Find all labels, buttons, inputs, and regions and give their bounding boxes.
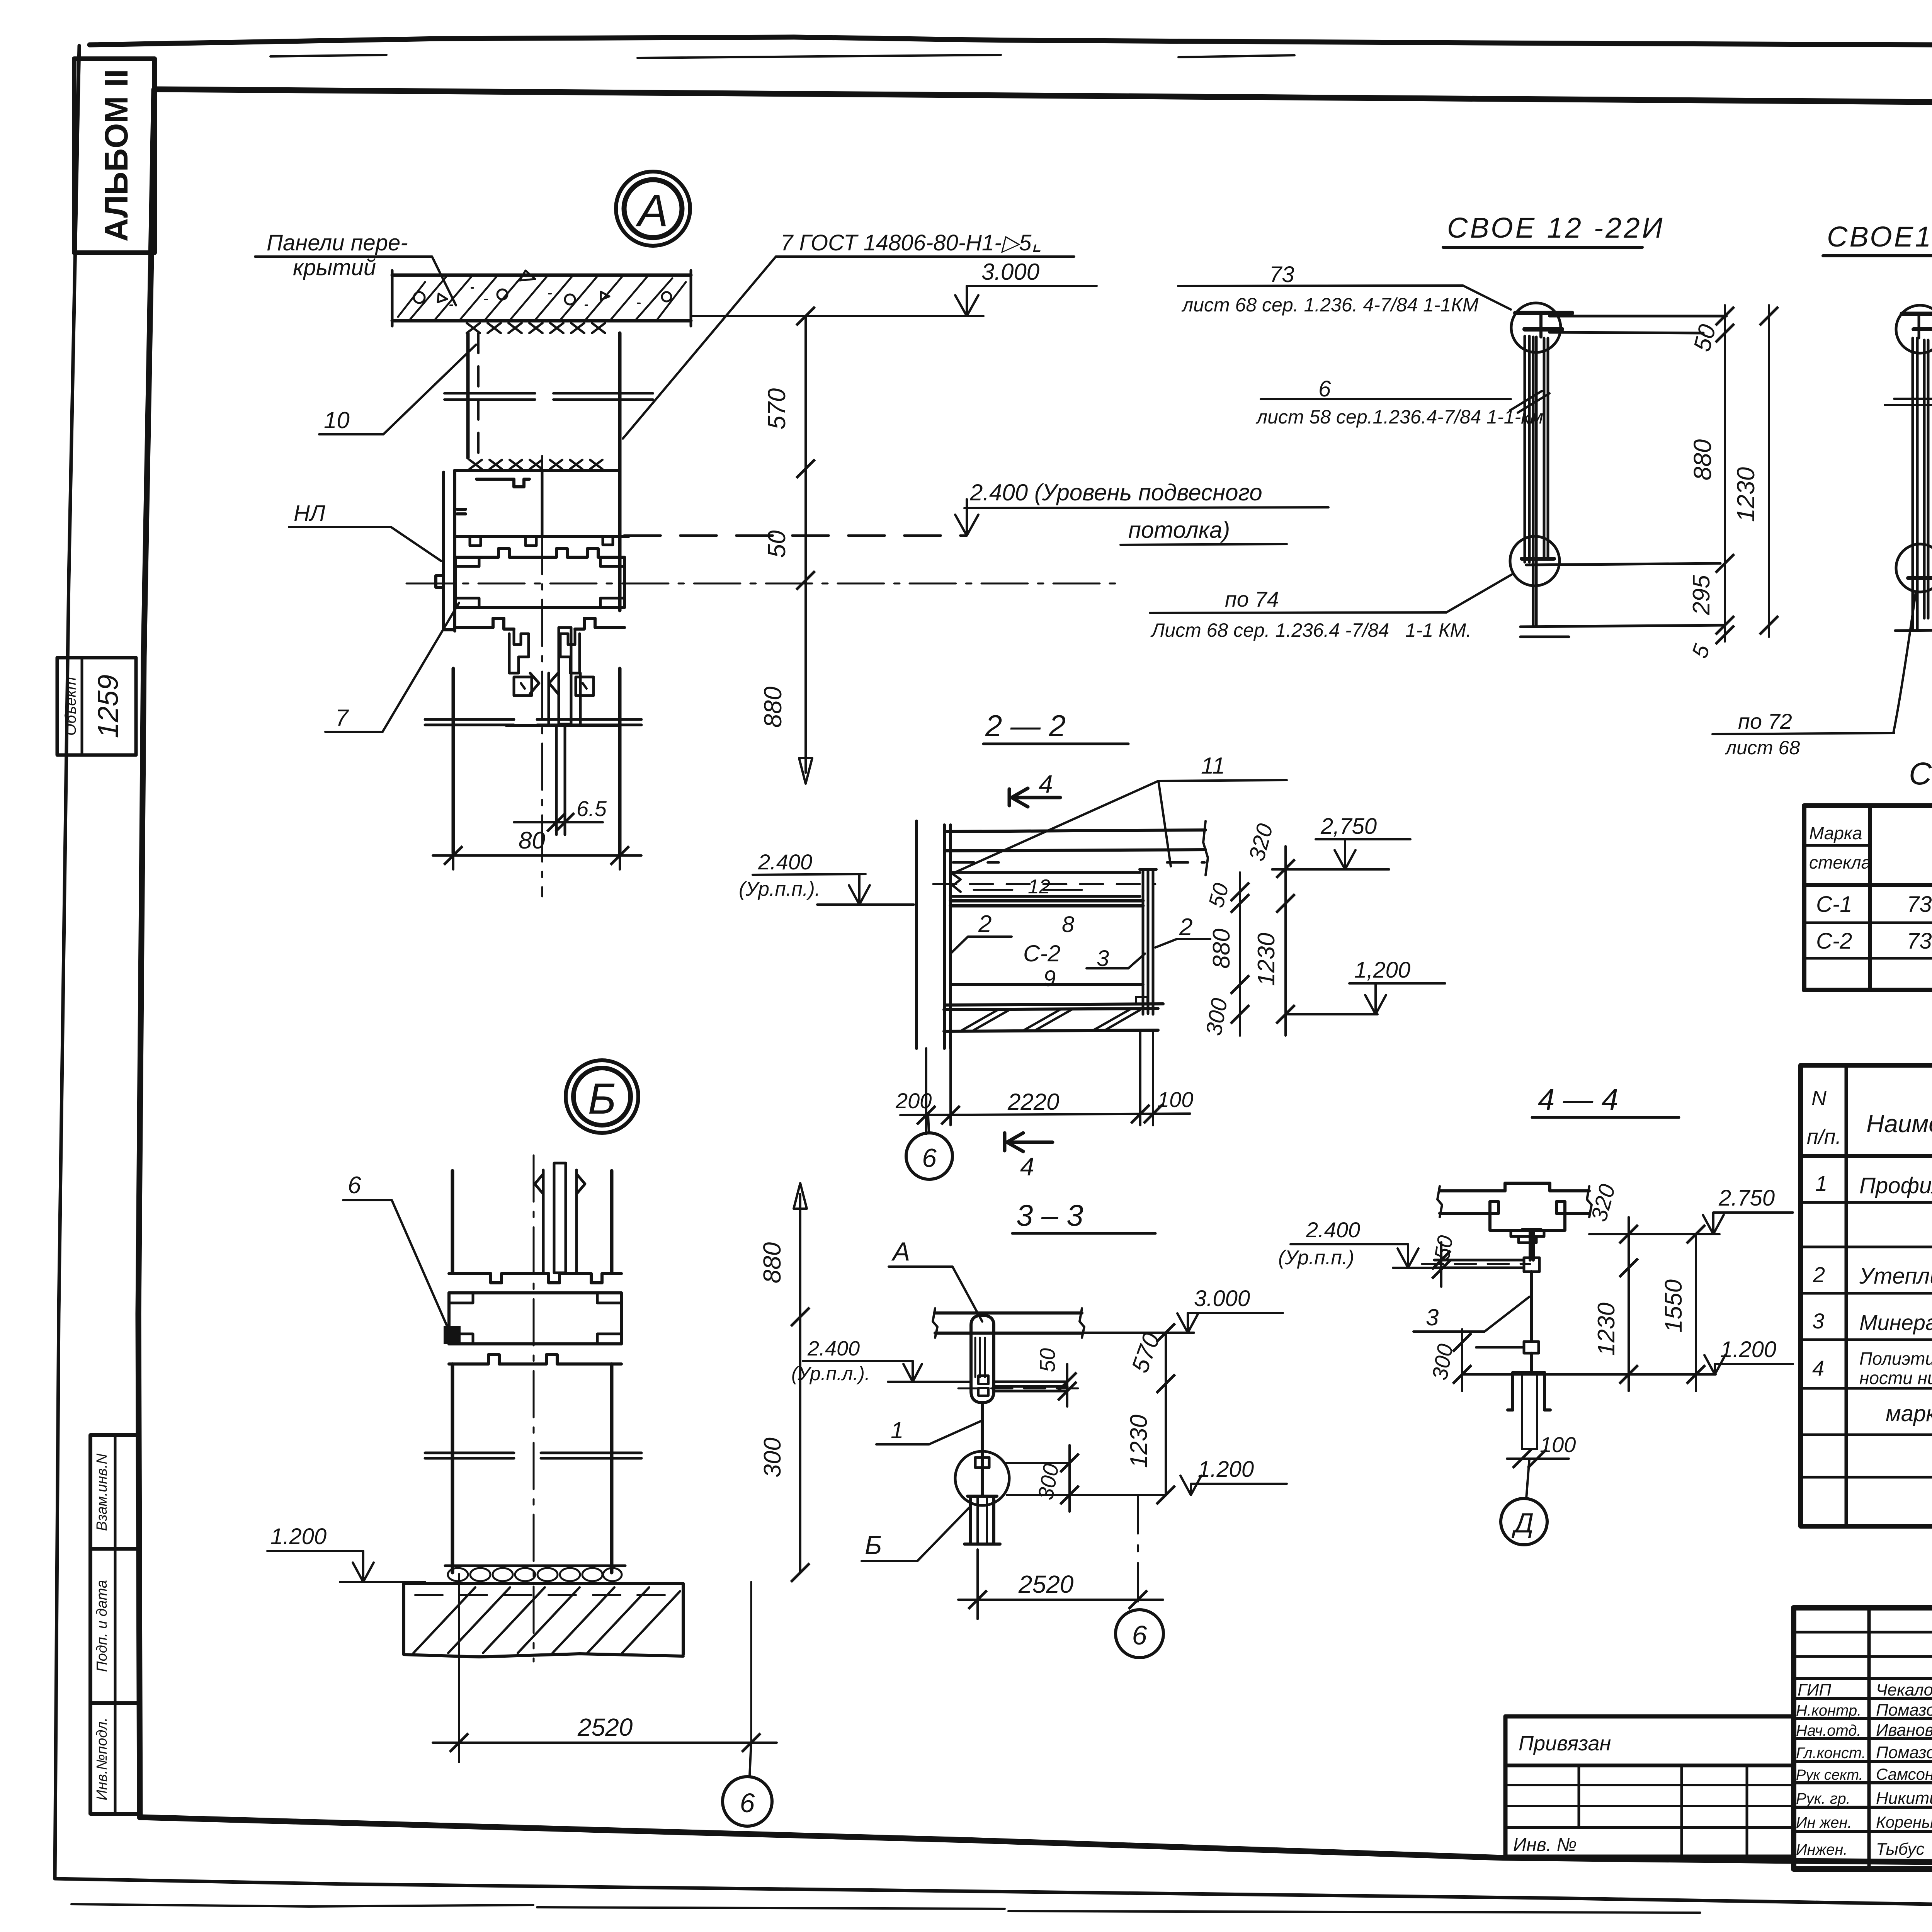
label 7 bbox=[325, 603, 459, 732]
svg-text:1230: 1230 bbox=[1593, 1303, 1620, 1356]
svg-text:4 — 4: 4 — 4 bbox=[1538, 1082, 1618, 1116]
title block outer bbox=[1794, 1608, 1932, 1869]
frame bottom lines (02И) bbox=[1895, 567, 1932, 631]
section cut arrow 4 (bottom) bbox=[1005, 1133, 1053, 1181]
node circle bottom (02И) bbox=[1896, 544, 1932, 592]
elevation title СВОЕ12-02И bbox=[1823, 221, 1932, 256]
svg-text:Инв. №: Инв. № bbox=[1513, 1835, 1577, 1855]
label 7 ГОСТ 14806-80-Н1-5 bbox=[623, 230, 1074, 439]
weld x-marks mid bbox=[469, 460, 602, 469]
svg-text:6: 6 bbox=[1132, 1620, 1147, 1650]
svg-text:Инв.№подл.: Инв.№подл. bbox=[94, 1718, 110, 1801]
svg-text:7380-77: 7380-77 bbox=[1907, 929, 1932, 954]
svg-text:1.200: 1.200 bbox=[1720, 1337, 1776, 1362]
3-3 mullion capsule bbox=[971, 1315, 994, 1403]
level mark 2.400 Уровень подвесного потолка bbox=[624, 480, 1328, 545]
svg-text:73: 73 bbox=[1269, 262, 1294, 287]
svg-text:1.200: 1.200 bbox=[270, 1524, 327, 1549]
svg-text:6: 6 bbox=[1318, 376, 1331, 401]
svg-text:Марка: Марка bbox=[1809, 823, 1862, 843]
svg-text:3: 3 bbox=[1812, 1309, 1824, 1333]
right mullion post bbox=[1140, 869, 1156, 1014]
svg-text:лист 68: лист 68 bbox=[1725, 737, 1800, 759]
3-3 vertical rod bbox=[981, 1403, 984, 1496]
glass spec row C-1 bbox=[1816, 890, 1932, 917]
svg-text:295: 295 bbox=[1688, 575, 1715, 616]
top anchor T (22И) bbox=[1515, 313, 1572, 337]
dim chain right (22И): 50/880/295/5 bbox=[1687, 305, 1734, 662]
svg-text:С-2: С-2 bbox=[1023, 940, 1061, 966]
margin box: АЛЬБОМ II bbox=[74, 59, 155, 253]
top anchor T (02И) bbox=[1902, 314, 1932, 338]
3-3 horizontal rail bbox=[958, 1382, 1082, 1391]
centerline horizontal detail A bbox=[406, 583, 1121, 585]
svg-text:7: 7 bbox=[335, 705, 349, 731]
products table header texts bbox=[1807, 1080, 1932, 1148]
svg-text:1259: 1259 bbox=[92, 675, 124, 738]
glass spec table grid bbox=[1804, 806, 1932, 990]
svg-text:2.400: 2.400 bbox=[807, 1337, 860, 1360]
label Панели перекрытий bbox=[255, 230, 456, 305]
svg-text:Минераловатн.утеплитель: Минераловатн.утеплитель bbox=[1859, 1310, 1932, 1335]
detail Б glass top bbox=[535, 1163, 585, 1273]
svg-text:Б: Б bbox=[865, 1531, 882, 1560]
mullion profile: bottom horizontal member bbox=[455, 607, 624, 629]
svg-text:2.400: 2.400 bbox=[1306, 1218, 1360, 1242]
svg-text:НЛ: НЛ bbox=[294, 501, 325, 526]
svg-text:Профиль резиновый: Профиль резиновый bbox=[1859, 1173, 1932, 1198]
3-3 dim 300 bbox=[1005, 1445, 1079, 1512]
node circle top (22И) bbox=[1511, 303, 1561, 352]
svg-text:1.200: 1.200 bbox=[1198, 1457, 1254, 1482]
level mark 2.400 Ур.п.п. (section 2-2) bbox=[739, 850, 914, 905]
svg-text:4: 4 bbox=[1039, 770, 1053, 798]
svg-text:Взам.инв.N: Взам.инв.N bbox=[94, 1453, 110, 1531]
3-3 bottom anchor bbox=[964, 1496, 1000, 1544]
weld x-marks under slab bbox=[467, 323, 605, 333]
svg-text:Наименование: Наименование bbox=[1866, 1110, 1932, 1138]
svg-text:100: 100 bbox=[1540, 1432, 1576, 1457]
mullion break (02И) bbox=[1885, 399, 1932, 405]
glass clamp assembly bbox=[509, 629, 594, 696]
frame bottom lines (22И) bbox=[1520, 563, 1724, 637]
svg-text:Коренькова: Коренькова bbox=[1876, 1813, 1932, 1831]
label 1 with leader (3-3) bbox=[876, 1417, 981, 1444]
svg-text:1550: 1550 bbox=[1660, 1279, 1687, 1333]
svg-text:12: 12 bbox=[1028, 876, 1050, 898]
concrete floor slab bbox=[392, 270, 691, 326]
svg-text:С-2: С-2 bbox=[1816, 929, 1852, 954]
svg-text:7 ГОСТ 14806-80-Н1-▷5⌞: 7 ГОСТ 14806-80-Н1-▷5⌞ bbox=[781, 230, 1042, 255]
svg-text:АЛЬБОМ II: АЛЬБОМ II bbox=[98, 69, 134, 242]
window frame top and bottom bbox=[951, 901, 1143, 985]
margin boxes: Взам.инв.N / Подп. и дата / Инв.№подл. bbox=[90, 1435, 139, 1814]
svg-text:Спецификация стекла.: Спецификация стекла. bbox=[1909, 756, 1932, 791]
node circle bottom (22И) bbox=[1510, 536, 1560, 586]
svg-text:6: 6 bbox=[922, 1143, 937, 1173]
svg-text:2520: 2520 bbox=[577, 1713, 633, 1741]
left wall of section 2-2 bbox=[917, 821, 951, 1048]
svg-text:Рук. гр.: Рук. гр. bbox=[1796, 1790, 1850, 1807]
svg-text:1230: 1230 bbox=[1126, 1415, 1152, 1468]
svg-text:Иванов: Иванов bbox=[1876, 1721, 1932, 1740]
svg-text:ГИП: ГИП bbox=[1798, 1680, 1831, 1699]
detail Б column top bbox=[452, 1171, 612, 1273]
dim 570 (3-3) bbox=[1126, 1323, 1175, 1504]
dim 320 (4-4) bbox=[1586, 1182, 1638, 1391]
svg-text:2.400 (Уровень подвесного: 2.400 (Уровень подвесного bbox=[969, 480, 1262, 505]
products row 4 bbox=[1812, 1349, 1932, 1388]
label 3 bbox=[1087, 946, 1145, 971]
svg-text:9: 9 bbox=[1043, 966, 1056, 991]
dim chain 570/50/880 bbox=[759, 307, 815, 784]
detail Б centerline bbox=[533, 1155, 535, 1662]
svg-text:11: 11 bbox=[1201, 753, 1225, 779]
svg-text:50: 50 bbox=[1035, 1348, 1060, 1372]
svg-text:Никитина: Никитина bbox=[1876, 1789, 1932, 1808]
svg-text:7380-77: 7380-77 bbox=[1907, 892, 1932, 917]
dim 50 (4-4) bbox=[1429, 1233, 1458, 1287]
svg-text:50: 50 bbox=[763, 530, 791, 558]
mullion profile: left bracket bbox=[455, 470, 619, 487]
svg-text:1: 1 bbox=[1815, 1171, 1827, 1196]
svg-text:Инжен.: Инжен. bbox=[1796, 1841, 1848, 1858]
svg-text:100: 100 bbox=[1157, 1087, 1193, 1112]
svg-text:Д: Д bbox=[1512, 1508, 1534, 1539]
svg-text:2520: 2520 bbox=[1018, 1570, 1074, 1598]
products row 2 bbox=[1813, 1254, 1932, 1294]
right dim chain of section 2-2: 50/880/300 bbox=[1201, 872, 1249, 1037]
suspended ceiling strip with label 12 bbox=[933, 872, 1155, 898]
svg-text:880: 880 bbox=[1208, 929, 1235, 968]
svg-text:Подп. и дата: Подп. и дата bbox=[94, 1580, 110, 1672]
level 1.200 (4-4) bbox=[1462, 1337, 1793, 1374]
level 1.200 (section 2-2) bbox=[1286, 957, 1445, 1014]
level 2.750 (section 2-2) bbox=[1272, 814, 1410, 869]
wall column lower bbox=[425, 668, 641, 853]
detail Б insulation row bbox=[445, 1566, 625, 1583]
svg-text:2220: 2220 bbox=[1007, 1089, 1059, 1115]
4-4 top slab with block bbox=[1437, 1183, 1592, 1243]
label 11 with leaders bbox=[951, 753, 1287, 874]
svg-text:Ин жен.: Ин жен. bbox=[1796, 1814, 1852, 1831]
detail Б mullion profile bbox=[444, 1274, 621, 1364]
mullion (02И) bbox=[1913, 338, 1928, 630]
svg-text:Нач.отд.: Нач.отд. bbox=[1796, 1722, 1861, 1739]
svg-text:2: 2 bbox=[1813, 1262, 1825, 1287]
level mark 3.000 bbox=[692, 259, 1097, 316]
3-3 node circle Б bbox=[955, 1451, 1009, 1505]
svg-text:стекла: стекла bbox=[1809, 852, 1871, 872]
staff names column 1 bbox=[1796, 1680, 1866, 1858]
level 2.750 (4-4) bbox=[1589, 1185, 1793, 1234]
svg-text:3 – 3: 3 – 3 bbox=[1016, 1198, 1083, 1232]
4-4 mid connector bbox=[1524, 1342, 1539, 1353]
dim 2520 (3-3) bbox=[958, 1495, 1163, 1619]
label 2 (right) bbox=[1155, 914, 1210, 947]
svg-text:лист 58 сер.1.236.4-7/84 1-1-к: лист 58 сер.1.236.4-7/84 1-1-км bbox=[1255, 406, 1543, 428]
level 2.400 Ур.п.п. (4-4) bbox=[1278, 1218, 1441, 1269]
svg-text:6.5: 6.5 bbox=[577, 796, 607, 821]
svg-text:п/п.: п/п. bbox=[1807, 1125, 1841, 1148]
mullion profile: middle box bbox=[455, 557, 624, 607]
svg-text:Полиэтилен высокой плот-: Полиэтилен высокой плот- bbox=[1859, 1349, 1932, 1369]
svg-text:по 74: по 74 bbox=[1225, 587, 1279, 611]
svg-text:А: А bbox=[891, 1237, 910, 1266]
sheet outer edge left bbox=[55, 46, 79, 1879]
3-3 small connector box bbox=[975, 1458, 989, 1468]
mullion profile: top horizontal member bbox=[455, 536, 629, 557]
products row 3 bbox=[1812, 1301, 1932, 1340]
svg-text:80: 80 bbox=[519, 827, 545, 854]
svg-text:N: N bbox=[1811, 1087, 1827, 1110]
margin box: Объект 1259 bbox=[57, 658, 136, 755]
leader from bottom circle to по 72 bbox=[1893, 592, 1916, 733]
mullion profile: center vertical line bbox=[541, 472, 544, 536]
svg-text:2,750: 2,750 bbox=[1320, 814, 1377, 839]
svg-text:Панели пере-: Панели пере- bbox=[267, 230, 408, 255]
svg-text:(Ур.п.л.).: (Ур.п.л.). bbox=[791, 1363, 870, 1384]
svg-text:Лист 68 сер. 1.236.4 -7/84 1: Лист 68 сер. 1.236.4 -7/84 1-1 КМ. bbox=[1150, 619, 1471, 641]
sheet outer edge top bbox=[90, 37, 1932, 51]
svg-text:Тыбус: Тыбус bbox=[1876, 1840, 1925, 1859]
svg-text:СВОЕ12-02И.: СВОЕ12-02И. bbox=[1827, 221, 1932, 253]
svg-text:по 72: по 72 bbox=[1738, 709, 1792, 733]
products table grid bbox=[1801, 1065, 1932, 1526]
products row 1 bbox=[1815, 1160, 1932, 1200]
svg-text:880: 880 bbox=[1689, 439, 1716, 480]
label 6 with leader bbox=[1255, 376, 1549, 428]
glass labels 8 C-2 9 bbox=[1023, 912, 1074, 991]
svg-text:6: 6 bbox=[348, 1172, 361, 1199]
grid mark 6 (section 2-2) bbox=[906, 1115, 952, 1179]
grid mark 6 (3-3) bbox=[1116, 1610, 1163, 1658]
svg-text:3.000: 3.000 bbox=[1194, 1286, 1250, 1311]
svg-text:1230: 1230 bbox=[1732, 467, 1760, 522]
dim 300 (4-4) bbox=[1427, 1329, 1524, 1391]
Инв number small bottom extension line bbox=[138, 1816, 141, 1819]
level 3.000 (3-3) bbox=[1082, 1286, 1283, 1333]
grid mark 6 (detail Б) bbox=[723, 1743, 772, 1826]
svg-text:Самсонова: Самсонова bbox=[1876, 1765, 1932, 1783]
svg-text:2: 2 bbox=[978, 911, 992, 937]
dim 1230 (4-4) bbox=[1593, 1268, 1629, 1374]
label по 72 лист 68 bbox=[1713, 709, 1894, 759]
label 3 with leader (4-4) bbox=[1413, 1297, 1529, 1332]
dim 50 (3-3) bbox=[1035, 1348, 1077, 1406]
outer dim 1230 (22И) bbox=[1732, 305, 1778, 637]
label Б with leader (3-3) bbox=[862, 1508, 969, 1561]
svg-text:СВОЕ 12 -22И: СВОЕ 12 -22И bbox=[1447, 212, 1665, 244]
svg-text:Б: Б bbox=[588, 1075, 616, 1123]
level 1.200 (detail Б) bbox=[267, 1524, 425, 1582]
section 3-3 title bbox=[1012, 1198, 1155, 1233]
Привязан block bbox=[1505, 1716, 1794, 1857]
svg-text:1230: 1230 bbox=[1253, 933, 1280, 986]
svg-text:10: 10 bbox=[324, 407, 350, 433]
section cut arrow 4 (top) bbox=[1009, 770, 1060, 807]
inner frame bbox=[155, 89, 1932, 107]
svg-text:Объект: Объект bbox=[62, 677, 79, 736]
label НЛ bbox=[289, 501, 441, 561]
svg-text:потолка): потолка) bbox=[1128, 517, 1230, 543]
dim 6.5 bbox=[514, 796, 607, 832]
svg-text:ности низкого давления: ности низкого давления bbox=[1859, 1368, 1932, 1388]
glass spec table header texts bbox=[1809, 823, 1932, 874]
svg-text:570: 570 bbox=[763, 388, 791, 429]
mullion (22И) bbox=[1525, 336, 1548, 625]
svg-text:1: 1 bbox=[891, 1417, 903, 1443]
dim 100 (4-4) bbox=[1507, 1432, 1576, 1468]
label 73 with leader bbox=[1178, 262, 1511, 316]
node circle top (02И) bbox=[1896, 305, 1932, 353]
label 6 (detail Б) bbox=[343, 1172, 450, 1332]
3-3 top slab bbox=[933, 1308, 1084, 1338]
detail Б column lower bbox=[425, 1364, 641, 1573]
svg-text:300: 300 bbox=[759, 1437, 786, 1477]
dim 80 bbox=[433, 827, 641, 869]
label 2 (left) bbox=[951, 911, 1012, 953]
svg-text:Утеплитель гермитф40: Утеплитель гермитф40 bbox=[1859, 1264, 1932, 1289]
svg-text:Рук сект.: Рук сект. bbox=[1796, 1767, 1863, 1783]
detail Б foundation hatched bbox=[404, 1583, 683, 1657]
4-4 hanger rod top bbox=[1422, 1230, 1541, 1342]
staff table grid bbox=[1794, 1608, 1932, 1869]
dim 2520 (detail Б) bbox=[433, 1574, 777, 1762]
products row марка 204-15 bbox=[1886, 1401, 1932, 1426]
elevation title СВОЕ 12-22И bbox=[1443, 212, 1665, 247]
svg-text:4: 4 bbox=[1020, 1152, 1034, 1181]
4-4 bottom cylinder bbox=[1508, 1372, 1550, 1449]
svg-text:Помазов: Помазов bbox=[1876, 1743, 1932, 1762]
section 4-4 title bbox=[1532, 1082, 1679, 1117]
glass spec row C-2 bbox=[1816, 927, 1932, 954]
svg-text:2: 2 bbox=[1179, 914, 1192, 940]
svg-text:Привязан: Привязан bbox=[1519, 1732, 1611, 1755]
detail Б dim chain 880/300 bbox=[758, 1183, 810, 1582]
label А with leader (3-3) bbox=[889, 1237, 982, 1321]
level 1.200 (3-3) bbox=[1007, 1457, 1287, 1495]
svg-text:6: 6 bbox=[740, 1788, 755, 1818]
svg-text:Н.контр.: Н.контр. bbox=[1796, 1702, 1861, 1719]
label по 74 with leader bbox=[1150, 575, 1512, 641]
svg-text:8: 8 bbox=[1062, 912, 1074, 937]
glass pane (hatched) bbox=[549, 628, 580, 726]
frame top lines (22И) bbox=[1549, 316, 1726, 333]
dashed row under beam bbox=[953, 861, 1205, 864]
svg-text:2 — 2: 2 — 2 bbox=[985, 709, 1066, 743]
svg-text:крытий: крытий bbox=[293, 255, 376, 280]
grid mark Д (4-4) bbox=[1501, 1459, 1547, 1545]
sheet outer edge bottom bbox=[55, 1879, 1932, 1912]
svg-text:Гл.конст.: Гл.конст. bbox=[1796, 1745, 1866, 1762]
outer dim 320/1230 (section 2-2) bbox=[1244, 821, 1295, 1036]
svg-text:880: 880 bbox=[758, 1242, 786, 1283]
label 10 bbox=[319, 345, 476, 434]
svg-text:3: 3 bbox=[1426, 1304, 1439, 1330]
detail mark Б circle bbox=[566, 1060, 638, 1133]
wall column upper bbox=[444, 333, 653, 611]
svg-text:марка 204-15 сорт 1: марка 204-15 сорт 1 bbox=[1886, 1401, 1932, 1426]
staff names column 2 bbox=[1876, 1680, 1932, 1859]
svg-text:2.400: 2.400 bbox=[758, 850, 812, 874]
svg-text:4: 4 bbox=[1812, 1356, 1824, 1380]
dim 1550 (4-4) bbox=[1660, 1225, 1705, 1391]
svg-text:A: A bbox=[636, 185, 668, 236]
bottom dims 200/2220/100 bbox=[895, 1032, 1193, 1134]
centerline vertical detail A bbox=[541, 456, 543, 896]
svg-text:(Ур.п.п.): (Ур.п.п.) bbox=[1278, 1247, 1354, 1269]
svg-text:С-1: С-1 bbox=[1816, 892, 1852, 917]
svg-text:3.000: 3.000 bbox=[981, 259, 1039, 285]
svg-text:(Ур.п.п.).: (Ур.п.п.). bbox=[739, 878, 820, 900]
floor slab hatch of section 2-2 bbox=[944, 997, 1163, 1031]
top beam bbox=[945, 821, 1208, 875]
section 2-2 title bbox=[983, 709, 1128, 744]
svg-text:1,200: 1,200 bbox=[1354, 957, 1410, 983]
detail mark A circle bbox=[616, 172, 690, 246]
svg-text:Помазов: Помазов bbox=[1876, 1701, 1932, 1719]
svg-text:880: 880 bbox=[759, 686, 787, 728]
svg-text:2.750: 2.750 bbox=[1718, 1185, 1775, 1211]
level 2.400 Ур.п.п. (3-3) bbox=[791, 1337, 971, 1384]
svg-text:лист 68 сер. 1.236. 4-7/84 1-1: лист 68 сер. 1.236. 4-7/84 1-1КМ bbox=[1181, 294, 1479, 316]
svg-text:Чекалов: Чекалов bbox=[1876, 1680, 1932, 1699]
